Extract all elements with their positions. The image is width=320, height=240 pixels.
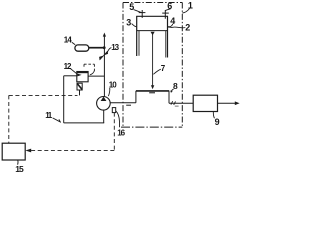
cell 2 bottom floor [136, 90, 169, 92]
cell 2 inner wall lining right [165, 31, 167, 58]
check valve below box 12 [77, 83, 82, 90]
pump 10 circle [97, 97, 111, 111]
cell 2 top edge [136, 15, 168, 17]
cell 2 inner level line [137, 30, 168, 32]
leader for label 3 [132, 24, 137, 27]
svg-text:9: 9 [215, 117, 220, 127]
junction dot [103, 46, 106, 49]
pipe cell to box 9 [169, 102, 193, 104]
flag hook to box corner [90, 71, 94, 75]
svg-text:14: 14 [64, 35, 73, 44]
dashed line to tank 15 [31, 149, 115, 151]
leader for label 11 [53, 118, 60, 122]
leader for label 12 [70, 68, 77, 74]
dashed return line horizontal upper [9, 94, 78, 96]
box 9 [193, 95, 217, 111]
riser arrowhead [103, 33, 106, 37]
outlet line from box 9 [218, 102, 236, 104]
arrowhead bottom of line 7 [151, 85, 154, 89]
leader for label 14 [72, 42, 75, 45]
cell right down pipe [168, 91, 170, 103]
feed line into box 12 [64, 75, 77, 77]
leader for label 10 [108, 88, 109, 96]
svg-text:7: 7 [161, 64, 166, 73]
cell 2 inner wall lining left [138, 31, 140, 56]
label 12 arrowhead inside box [77, 74, 82, 77]
dashed line flange down [113, 113, 115, 151]
svg-text:1: 1 [188, 1, 193, 11]
svg-text:15: 15 [15, 164, 24, 174]
capsule 14 [75, 45, 89, 51]
svg-text:4: 4 [170, 16, 175, 26]
leader for label 15 [17, 160, 19, 165]
svg-text:6: 6 [167, 1, 172, 11]
short dash below pipe at border [126, 104, 131, 106]
cell 2 left wall [136, 16, 138, 56]
line box 12 to riser [88, 75, 104, 77]
check valve stem [79, 90, 81, 95]
enclosure 1 dash-dot border top [123, 2, 182, 4]
electrode stub 5 [139, 10, 146, 18]
svg-text:8: 8 [173, 81, 178, 91]
leader for label 13 [107, 48, 112, 54]
pump 10 triangle [101, 97, 107, 101]
box 12 [77, 72, 88, 82]
line capsule 14 to riser [89, 47, 104, 49]
leader for label 16 [116, 111, 120, 127]
dashed flag above box 12 [84, 64, 94, 71]
arrowhead top of line 7 [151, 32, 155, 36]
svg-text:2: 2 [185, 23, 190, 33]
enclosure 1 dash-dot border left [122, 3, 124, 128]
leader for label 6 [166, 9, 171, 11]
pipe pump to cell [110, 102, 136, 104]
hatch under floor [149, 92, 155, 94]
leader for label 5 [134, 10, 142, 13]
pump bottom pipe [103, 110, 105, 123]
outlet arrowhead [235, 101, 240, 105]
box 12 thick top edge [77, 71, 88, 73]
pump flange [112, 108, 115, 113]
tick marks on pipe [171, 101, 173, 105]
inlet bottom line [64, 122, 104, 124]
enclosure 1 dash-dot border bottom [121, 126, 182, 128]
arrowhead into tank 15 [25, 149, 31, 153]
svg-text:3: 3 [126, 17, 131, 27]
electrode stub 6 [162, 10, 169, 19]
leader for label 7 [153, 69, 160, 74]
cell 2 right wall [167, 16, 169, 57]
flow arrow 7 center line [152, 34, 154, 86]
svg-text:5: 5 [129, 2, 134, 12]
enclosure 1 dash-dot border right [181, 3, 183, 128]
leader for label 2 [168, 26, 186, 29]
cell left down pipe [135, 91, 137, 103]
leader for label 8 [171, 89, 173, 92]
leader for label 1 [182, 9, 189, 14]
dashed return line vertical left [8, 95, 10, 143]
tank 15 [2, 143, 25, 160]
leader for label 4 [168, 24, 173, 27]
feed vertical line 11 [63, 76, 65, 123]
riser pipe from pump [103, 34, 105, 97]
valve 13 bowtie [99, 56, 103, 61]
leader for label 9 [213, 112, 214, 119]
